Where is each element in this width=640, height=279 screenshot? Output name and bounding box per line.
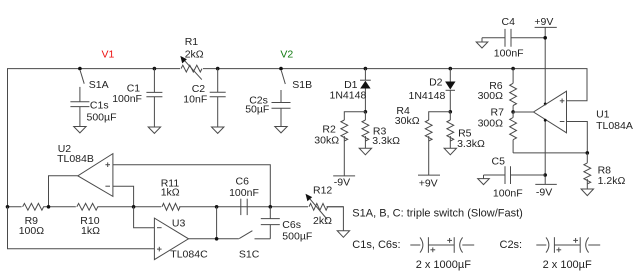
resistor R6: [478, 67, 517, 112]
svg-text:1N4148: 1N4148: [409, 90, 446, 102]
svg-text:100nF: 100nF: [229, 187, 259, 199]
svg-text:100nF: 100nF: [494, 47, 524, 59]
node U3out top: [215, 205, 219, 209]
svg-text:-9V: -9V: [536, 186, 552, 198]
note C1s C6s: [352, 239, 400, 251]
svg-text:100nF: 100nF: [112, 93, 142, 105]
ground (C2): [212, 127, 224, 133]
resistor R8: [584, 153, 626, 189]
svg-text:2 x 1000µF: 2 x 1000µF: [416, 259, 472, 271]
wire to R2: [344, 112, 365, 120]
node U3out bottom: [215, 237, 219, 241]
svg-text:1kΩ: 1kΩ: [81, 225, 100, 237]
node V2: [280, 48, 293, 60]
svg-text:V2: V2: [280, 48, 293, 60]
wire U2 +in: [113, 165, 270, 207]
node R10/R11/U2-in/U3-in: [132, 205, 136, 209]
capacitor C6: [229, 176, 259, 216]
capacitor C5: [484, 155, 546, 199]
wire left to U3 +in: [8, 207, 155, 249]
svg-text:+9V: +9V: [534, 16, 553, 28]
diode D2: [409, 67, 456, 112]
power -9V (U1): [535, 119, 557, 199]
wire to R4: [429, 112, 451, 120]
svg-text:-9V: -9V: [334, 177, 350, 189]
node C6/C6s/U2+: [269, 205, 273, 209]
svg-text:1.2kΩ: 1.2kΩ: [598, 175, 626, 187]
svg-text:+9V: +9V: [419, 178, 438, 190]
svg-text:D2: D2: [429, 77, 443, 89]
wire U2 -in: [113, 186, 134, 207]
svg-text:1N4148: 1N4148: [330, 89, 367, 101]
svg-text:V1: V1: [102, 48, 115, 60]
power -9V (R2): [333, 176, 355, 189]
node R8: [586, 151, 590, 155]
node D2/R4/R5: [449, 110, 453, 114]
svg-text:C2s:: C2s:: [500, 239, 523, 251]
electrolytic pair symbol 2: [536, 237, 600, 271]
wire R12 to ground: [327, 207, 344, 231]
svg-text:100Ω: 100Ω: [19, 225, 45, 237]
wire U3out vertical: [216, 207, 218, 239]
ground (R8): [581, 189, 593, 196]
resistor R1 (preset): [180, 36, 204, 79]
svg-text:C6: C6: [236, 176, 250, 188]
power +9V (top): [534, 16, 556, 105]
resistor R7: [478, 106, 517, 152]
svg-text:100nF: 100nF: [493, 187, 523, 199]
svg-text:300Ω: 300Ω: [478, 117, 504, 129]
resistor R5: [447, 112, 485, 150]
svg-text:C1s, C6s:: C1s, C6s:: [352, 239, 400, 251]
svg-text:S1A: S1A: [89, 79, 109, 91]
svg-text:R12: R12: [313, 184, 332, 196]
svg-text:R1: R1: [185, 36, 199, 48]
svg-text:50µF: 50µF: [245, 103, 269, 115]
switch S1B: [279, 67, 312, 103]
note triple switch: [352, 207, 523, 219]
ground (R3): [359, 148, 371, 155]
wire R7 to R8 node: [513, 152, 587, 154]
ground (C1): [148, 127, 160, 133]
svg-text:1kΩ: 1kΩ: [161, 187, 180, 199]
svg-text:TL084C: TL084C: [170, 249, 208, 261]
node V1: [102, 48, 115, 60]
node left rail: [6, 205, 10, 209]
svg-text:U3: U3: [172, 218, 186, 230]
capacitor C2: [183, 67, 225, 127]
svg-text:U1: U1: [596, 109, 610, 121]
wire top rail: [8, 69, 588, 207]
wire to U3 -in: [134, 207, 155, 228]
switch S1C: [239, 231, 270, 261]
resistor R3: [362, 112, 400, 148]
svg-text:S1A, B, C: triple switch (Slow: S1A, B, C: triple switch (Slow/Fast): [352, 207, 523, 219]
svg-text:S1C: S1C: [239, 249, 260, 261]
svg-text:2 x 100µF: 2 x 100µF: [543, 259, 592, 271]
svg-text:500µF: 500µF: [282, 231, 312, 243]
wire U2 out: [49, 176, 78, 207]
resistor R11: [161, 177, 180, 212]
node R6/R7/U1out: [511, 110, 515, 114]
resistor R12 (preset): [306, 184, 333, 226]
wire U3 out: [189, 238, 239, 240]
svg-text:TL084B: TL084B: [57, 153, 94, 165]
resistor R2: [314, 120, 347, 176]
svg-text:S1B: S1B: [292, 79, 312, 91]
node D1/R2/R3: [364, 110, 368, 114]
ground (C2s): [275, 127, 287, 133]
wire U1 out: [513, 111, 533, 113]
wire U1 -in: [567, 122, 588, 153]
svg-text:C4: C4: [502, 16, 516, 28]
ground (R12): [337, 231, 349, 238]
ground (C1s): [74, 127, 86, 133]
svg-text:C5: C5: [492, 155, 506, 167]
svg-text:C6s: C6s: [282, 219, 301, 231]
capacitor C2s: [245, 95, 290, 127]
wire bottom rail: [8, 206, 344, 208]
svg-text:30kΩ: 30kΩ: [395, 115, 420, 127]
op-amp U1: [534, 91, 633, 133]
diode D1: [330, 67, 371, 112]
resistor R9: [19, 202, 45, 237]
svg-text:10nF: 10nF: [183, 94, 207, 106]
svg-text:300Ω: 300Ω: [478, 90, 504, 102]
svg-text:2kΩ: 2kΩ: [313, 215, 332, 227]
op-amp U2: [57, 143, 113, 197]
svg-text:3.3kΩ: 3.3kΩ: [457, 138, 485, 150]
node U2out/R9/R10: [47, 205, 51, 209]
electrolytic pair symbol 1: [410, 237, 474, 271]
note C2s: [500, 239, 523, 251]
switch S1A: [78, 67, 109, 102]
svg-text:TL084A: TL084A: [596, 120, 633, 132]
svg-text:30kΩ: 30kΩ: [314, 134, 339, 146]
capacitor C6s: [261, 207, 312, 243]
capacitor C4: [482, 16, 545, 59]
resistor R10: [76, 202, 100, 237]
svg-text:3.3kΩ: 3.3kΩ: [372, 135, 400, 147]
svg-text:C1s: C1s: [90, 100, 109, 112]
op-amp U3: [154, 218, 208, 261]
resistor R4: [395, 105, 432, 175]
capacitor C1s: [70, 100, 116, 127]
ground (C5): [478, 179, 490, 185]
ground (C4): [476, 42, 488, 48]
power +9V (R4): [418, 175, 440, 190]
svg-text:2kΩ: 2kΩ: [185, 49, 204, 61]
svg-text:500µF: 500µF: [87, 112, 117, 124]
capacitor C1: [112, 67, 162, 127]
ground (R5): [444, 148, 456, 155]
